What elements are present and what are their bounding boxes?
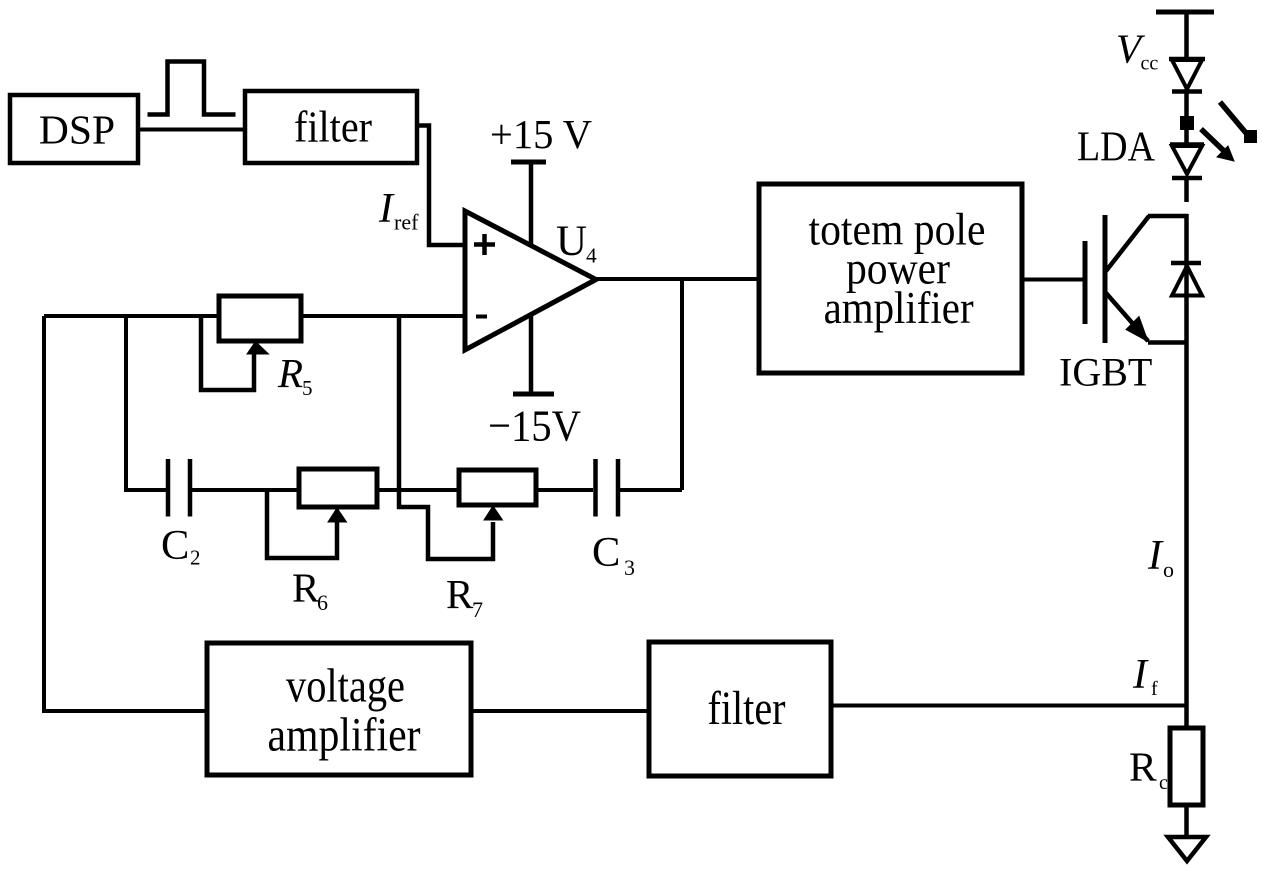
laser diode LDA: [1170, 145, 1204, 179]
svg-text:R: R: [277, 350, 303, 396]
svg-text:LDA: LDA: [1077, 125, 1156, 171]
wire inverting input row: [44, 314, 219, 318]
LDA emission arrow 2: [1201, 129, 1234, 161]
wire branch down to C2: [126, 316, 166, 490]
wire Vcc to diode D1: [1184, 12, 1189, 60]
svg-text:amplifier: amplifier: [268, 709, 421, 762]
wire filter to op-amp + input: [417, 126, 466, 246]
capacitor C2: [168, 459, 299, 517]
wire D1 to LDA: [1184, 89, 1189, 144]
svg-text:+15 V: +15 V: [490, 111, 592, 157]
wire output junction down to C3: [680, 279, 684, 490]
wire R7 to C3: [536, 488, 593, 492]
ground: [1168, 837, 1206, 861]
svg-text:DSP: DSP: [39, 107, 115, 153]
svg-text:5: 5: [302, 376, 313, 400]
potentiometer R5: [201, 296, 301, 390]
block DSP: [10, 95, 138, 163]
svg-text:f: f: [1151, 678, 1158, 700]
wire collector down through diode to Io: [1184, 214, 1189, 729]
svg-text:voltage: voltage: [286, 659, 405, 712]
-15V supply: [488, 314, 581, 451]
svg-text:ref: ref: [394, 210, 419, 235]
wire junction from inverting input down to R7 wiper: [399, 316, 493, 559]
svg-text:6: 6: [317, 590, 328, 615]
laser diode LDA package mark: [1180, 116, 1194, 130]
svg-text:I: I: [1132, 652, 1149, 698]
svg-text:cc: cc: [1141, 53, 1159, 75]
LDA emission arrow 1: [1220, 102, 1257, 143]
Vcc power rail: [1156, 10, 1214, 15]
svg-text:R: R: [1129, 743, 1157, 789]
svg-text:−15V: −15V: [488, 401, 581, 451]
wire LDA to collector node: [1184, 178, 1189, 202]
svg-text:o: o: [1163, 557, 1174, 582]
wire filter2 to voltage amplifier: [471, 709, 649, 713]
svg-text:R: R: [446, 571, 474, 617]
block voltage amplifier: [207, 643, 471, 775]
svg-text:I: I: [1147, 533, 1164, 579]
potentiometer R6: [267, 469, 377, 558]
wire feedback bottom: [831, 704, 1187, 708]
wire Rc to ground: [1184, 805, 1189, 837]
svg-text:7: 7: [472, 597, 483, 622]
wire to IGBT gate: [1022, 278, 1085, 282]
svg-text:filter: filter: [294, 103, 372, 152]
wire R6 to R7: [377, 488, 459, 492]
op-amp U4: [465, 211, 596, 350]
svg-text:U: U: [556, 218, 587, 265]
svg-text:R: R: [292, 565, 320, 611]
svg-text:4: 4: [586, 244, 597, 268]
capacitor C3: [596, 459, 683, 517]
+15V supply: [490, 111, 592, 246]
resistor Rc: [1170, 728, 1203, 805]
svg-text:IGBT: IGBT: [1059, 349, 1152, 394]
transistor IGBT: [1085, 215, 1188, 343]
svg-text:C: C: [592, 529, 620, 576]
block filter input: [245, 91, 417, 163]
diode D1: [1169, 59, 1205, 92]
pulse waveform: [148, 62, 236, 115]
svg-text:c: c: [1159, 772, 1168, 794]
antiparallel diode: [1171, 263, 1202, 296]
wire op-amp output: [596, 277, 759, 281]
wire voltage amplifier to left riser: [44, 316, 207, 711]
svg-text:filter: filter: [708, 682, 786, 735]
block filter feedback: [649, 642, 831, 776]
svg-text:3: 3: [624, 555, 635, 580]
potentiometer R7: [459, 470, 536, 520]
svg-text:amplifier: amplifier: [824, 283, 974, 333]
svg-text:I: I: [378, 186, 395, 232]
svg-text:C: C: [161, 522, 189, 569]
wire DSP to filter: [138, 128, 245, 132]
svg-text:2: 2: [190, 546, 201, 570]
block totem pole power amplifier: [759, 184, 1022, 373]
